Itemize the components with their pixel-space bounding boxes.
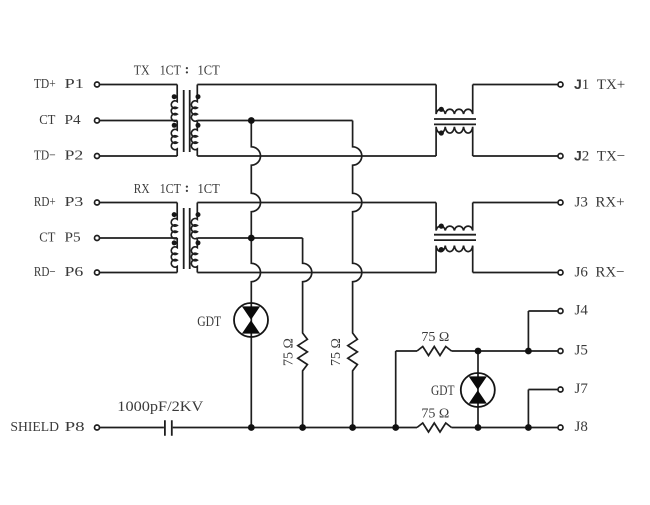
svg-text:RX: RX bbox=[134, 182, 150, 197]
svg-text:J4: J4 bbox=[575, 303, 589, 319]
svg-text:1CT: 1CT bbox=[198, 64, 221, 79]
svg-text::: : bbox=[185, 181, 190, 196]
svg-text:SHIELD: SHIELD bbox=[10, 420, 59, 435]
svg-text:J3 RX+: J3 RX+ bbox=[575, 194, 625, 210]
svg-text:75 Ω: 75 Ω bbox=[329, 338, 344, 366]
svg-text:75 Ω: 75 Ω bbox=[421, 407, 449, 422]
svg-text:1CT: 1CT bbox=[160, 64, 182, 79]
svg-text:P8: P8 bbox=[65, 420, 85, 435]
svg-text:RD−: RD− bbox=[34, 265, 56, 280]
svg-text:CT: CT bbox=[39, 230, 56, 245]
svg-text:TX: TX bbox=[134, 64, 150, 79]
svg-text:1CT: 1CT bbox=[198, 182, 221, 197]
svg-text:TD−: TD− bbox=[34, 148, 56, 163]
svg-text:P3: P3 bbox=[65, 195, 84, 210]
svg-text:J6 RX−: J6 RX− bbox=[575, 264, 625, 280]
svg-text:P1: P1 bbox=[65, 77, 84, 92]
svg-text:GDT: GDT bbox=[431, 383, 455, 399]
svg-text:75 Ω: 75 Ω bbox=[421, 330, 449, 345]
svg-text:1CT: 1CT bbox=[160, 182, 182, 197]
svg-text:CT: CT bbox=[39, 113, 56, 128]
svg-text:RD+: RD+ bbox=[34, 195, 56, 210]
svg-text:TD+: TD+ bbox=[34, 77, 56, 92]
svg-text:J8: J8 bbox=[575, 419, 588, 435]
svg-text:J5: J5 bbox=[575, 343, 588, 359]
svg-text::: : bbox=[185, 63, 190, 78]
svg-text:75 Ω: 75 Ω bbox=[282, 338, 297, 366]
svg-text:1000pF/2KV: 1000pF/2KV bbox=[117, 399, 203, 415]
svg-text:J2 TX−: J2 TX− bbox=[574, 147, 625, 164]
svg-text:P6: P6 bbox=[65, 265, 84, 280]
svg-text:P5: P5 bbox=[65, 230, 81, 245]
svg-text:P4: P4 bbox=[65, 113, 81, 128]
svg-text:J1 TX+: J1 TX+ bbox=[574, 76, 625, 93]
svg-text:GDT: GDT bbox=[197, 314, 221, 330]
svg-text:J7: J7 bbox=[575, 381, 589, 397]
svg-text:P2: P2 bbox=[65, 148, 84, 163]
